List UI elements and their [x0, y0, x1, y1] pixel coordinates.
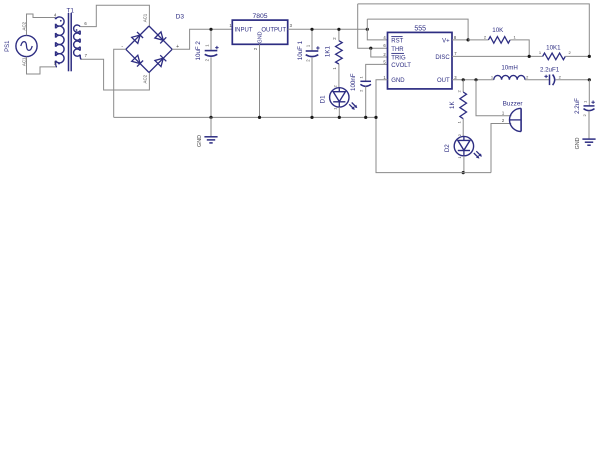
- pin label 5 (555 CVOLT): [383, 59, 386, 64]
- text OUTPUT (7805): [261, 28, 286, 34]
- wire 7805 output rail: [288, 28, 368, 30]
- junction dot THR/TRIG: [369, 47, 372, 50]
- label 7805: [252, 13, 267, 20]
- pin label 1 (555 GND): [383, 75, 386, 80]
- pin label 1 (7805 input): [229, 23, 232, 28]
- pin label 1 (T1): [54, 61, 57, 66]
- text OUT: [437, 78, 450, 84]
- junction dot 10uF1 ground: [310, 116, 313, 119]
- svg-text:D3: D3: [176, 13, 185, 20]
- resistor R 1K1: [336, 41, 343, 64]
- pin label 3 (555 OUT): [454, 75, 457, 80]
- label Buzzer: [503, 100, 524, 107]
- wire 1K1 to D1: [338, 64, 340, 88]
- wire OUT to buzzer pin1: [476, 80, 512, 116]
- wire 10uF1 bottom lead: [311, 58, 313, 118]
- junction dot 1K1 top: [337, 28, 340, 31]
- pin label 2 (10mH): [526, 74, 529, 79]
- label 10uF1: [297, 40, 304, 60]
- svg-text:10mH: 10mH: [501, 64, 518, 71]
- label PS1: [5, 40, 11, 52]
- wire D1 to ground rail: [338, 107, 340, 117]
- wire 10uF1 top lead: [311, 29, 313, 51]
- label D3: [176, 13, 185, 20]
- ground symbol left: [204, 117, 217, 142]
- text CVOLT: [391, 63, 411, 69]
- pin label 1 (2.2uF): [582, 100, 587, 103]
- wire T1 pin 7 to bridge AC2: [81, 59, 149, 90]
- wire 555 GND down and bottom loop: [376, 80, 491, 173]
- LED D2: [454, 136, 482, 158]
- label GND left: [197, 135, 203, 147]
- pin label 1 (10K): [513, 34, 516, 39]
- pin label 1 (D1): [332, 107, 337, 110]
- transformer polarity dots: [58, 20, 77, 65]
- wire 2.2uF1 to right rail: [556, 79, 590, 81]
- svg-text:CVOLT: CVOLT: [391, 63, 411, 69]
- pin label AC1 (bridge top): [143, 13, 148, 22]
- junction dot 10uF2 ground: [209, 116, 212, 119]
- plus sign 10uF2: [215, 46, 218, 49]
- wire 10mH to 2.2uF1: [525, 79, 550, 81]
- capacitor C 100nF: [360, 81, 371, 86]
- wire 1K to D2: [462, 119, 464, 137]
- wire CVOLT to 100nF: [366, 64, 388, 81]
- wire 7805 gnd to rail: [259, 44, 261, 117]
- wire D2 to bottom loop: [463, 156, 465, 173]
- svg-text:100nF: 100nF: [350, 73, 357, 91]
- pin label 6 (T1): [84, 21, 87, 26]
- capacitor C 2.2uF: [584, 106, 595, 111]
- svg-text:GND: GND: [197, 135, 203, 147]
- junction dot 10uF1 top: [310, 28, 313, 31]
- svg-text:2.2uF: 2.2uF: [574, 98, 581, 114]
- svg-text:AC1: AC1: [143, 13, 148, 22]
- svg-text:INPUT: INPUT: [235, 28, 253, 34]
- wire THR drop: [358, 4, 388, 48]
- transformer T1 primary winding: [55, 17, 64, 67]
- svg-text:THR: THR: [391, 47, 404, 53]
- pin label AC2 (PS1 top): [21, 21, 26, 30]
- pin label 2 (2.2uF): [582, 114, 587, 117]
- svg-text:1K1: 1K1: [324, 46, 331, 58]
- wire 10K to DISC node: [510, 40, 529, 57]
- label T1: [66, 8, 74, 15]
- wire PS1 top to T1 pin 4: [27, 14, 56, 35]
- label 1K: [449, 101, 456, 109]
- pin label 2 (1K1): [332, 37, 337, 40]
- svg-text:OUT: OUT: [437, 78, 450, 84]
- junction dot V+: [467, 38, 470, 41]
- svg-text:10uF 2: 10uF 2: [195, 41, 202, 61]
- label 2.2uF1: [540, 66, 560, 73]
- label 10mH: [501, 64, 518, 71]
- wire 2.2uF to ground: [588, 111, 590, 139]
- transformer T1 secondary winding: [74, 25, 82, 59]
- pin label AC2 (bridge bottom): [143, 74, 148, 83]
- transformer T1 core: [69, 13, 72, 71]
- junction dot D2 bottom: [462, 171, 465, 174]
- text TRIG with overbar: [391, 53, 406, 61]
- bridge rectifier D3 diode top-right: [149, 26, 172, 49]
- pin label 1 (1K): [456, 120, 461, 123]
- inductor L 10mH: [494, 75, 525, 79]
- svg-text:D1: D1: [320, 95, 327, 103]
- pin label 2 (10K1): [568, 50, 571, 55]
- junction dot DISC node: [528, 55, 531, 58]
- plus sign 2.2uF: [591, 101, 594, 104]
- label 10K1: [546, 44, 561, 51]
- svg-text:Buzzer: Buzzer: [503, 100, 524, 107]
- label 1K1: [324, 46, 331, 58]
- svg-text:1K: 1K: [449, 101, 456, 109]
- pin label + (bridge right): [176, 44, 179, 50]
- svg-text:GND: GND: [575, 137, 581, 149]
- plus sign 10uF1: [316, 46, 319, 49]
- svg-text:AC2: AC2: [21, 21, 26, 30]
- svg-text:AC2: AC2: [143, 74, 148, 83]
- pin label 1 (10uF1): [305, 44, 310, 47]
- wire PS1 bottom to T1 pin 1: [27, 57, 58, 74]
- pin label 7 (T1): [85, 53, 88, 58]
- svg-text:V+: V+: [442, 38, 450, 44]
- text GND (555): [391, 78, 405, 84]
- text DISC: [435, 55, 450, 61]
- pin label 2 (D1): [332, 85, 337, 88]
- svg-text:GND: GND: [391, 78, 405, 84]
- junction dot rail to 555: [366, 28, 369, 31]
- bridge rectifier D3 diode bottom-left: [126, 49, 149, 72]
- wire top rail (timing node): [358, 4, 590, 57]
- junction dot 10uF2 top: [209, 28, 212, 31]
- wire 10uF2 top lead: [210, 29, 212, 50]
- pin label 1 (1K1): [332, 67, 337, 70]
- label D1: [320, 95, 327, 103]
- svg-text:10K: 10K: [492, 27, 504, 34]
- pin label 2 (555 TRIG): [383, 52, 386, 57]
- label D2: [444, 144, 451, 152]
- pin label 2 (10uF2): [205, 58, 210, 61]
- junction dot 7805 gnd: [258, 116, 261, 119]
- pin label - (bridge left): [121, 44, 123, 50]
- pin label 2 (10K): [484, 34, 487, 39]
- wire rail up-down link (RST/V+ feed): [367, 19, 387, 40]
- junction dot OUT buzzer: [474, 78, 477, 81]
- svg-text:555: 555: [414, 25, 426, 32]
- pin label 2 (D2): [457, 133, 462, 136]
- svg-text:GND: GND: [258, 31, 264, 43]
- pin label 1 (D2): [457, 156, 462, 159]
- capacitor C 10uF2: [205, 51, 218, 57]
- wire 1K1 top lead: [338, 29, 340, 40]
- wire rail2 to V+: [367, 19, 468, 40]
- pin label 2 (2.2uF1): [559, 75, 562, 80]
- label 2.2uF: [574, 98, 581, 114]
- svg-text:7805: 7805: [252, 13, 267, 20]
- pin label 4 (T1): [54, 12, 57, 17]
- resistor R 10K: [488, 37, 510, 44]
- pin label 3 (7805 output): [290, 23, 293, 28]
- pin label 1 (buzzer): [502, 111, 505, 116]
- wire 1K top lead: [462, 80, 464, 92]
- text GND (7805): [258, 31, 264, 43]
- pin label 6 (555 THR): [383, 43, 386, 48]
- wire bridge - to ground rail: [114, 49, 126, 117]
- pin label AC1 (PS1 bottom): [21, 57, 26, 66]
- LED D1: [330, 88, 358, 110]
- pin label 4 (555 RST): [383, 35, 386, 40]
- label 100nF: [350, 73, 357, 91]
- svg-text:10uF 1: 10uF 1: [297, 40, 304, 60]
- bridge rectifier D3 diode top-left: [126, 26, 149, 49]
- wire 100nF bottom lead: [365, 86, 367, 117]
- buzzer LS1: [509, 108, 521, 131]
- wire OUT pin: [452, 79, 494, 81]
- resistor R 1K: [460, 92, 467, 119]
- wire V+ junction to 10K: [468, 39, 488, 41]
- ground symbol right: [582, 139, 595, 145]
- junction dot ground rail to 555 gnd drop: [374, 116, 377, 119]
- pin label 1 (10uF2): [204, 44, 209, 47]
- pin label 2 (1K): [456, 90, 461, 93]
- pin label 1 (10mH): [491, 74, 494, 79]
- voltage regulator U 7805 box: [232, 20, 287, 44]
- text INPUT (7805): [235, 28, 253, 34]
- wire bridge + to 7805 input: [172, 29, 232, 49]
- capacitor C 10uF1: [306, 51, 319, 57]
- wire TRIG jog: [371, 48, 388, 57]
- pin label 2 (buzzer): [502, 118, 505, 123]
- svg-text:PS1: PS1: [5, 40, 11, 52]
- svg-text:TRIG: TRIG: [391, 55, 406, 61]
- svg-text:RST: RST: [391, 39, 403, 45]
- wire 10uF2 bottom lead: [210, 57, 212, 117]
- svg-text:DISC: DISC: [435, 55, 450, 61]
- junction dot OUT 1K: [462, 78, 465, 81]
- svg-text:OUTPUT: OUTPUT: [261, 28, 286, 34]
- label 10uF2: [195, 41, 202, 61]
- pin label 2 (7805 gnd): [253, 47, 258, 50]
- wire 10K1 to right rail: [565, 55, 589, 57]
- wire T1 pin 6 to bridge AC1: [81, 5, 150, 26]
- pin label 8 (555 V+): [454, 35, 457, 40]
- text THR: [391, 47, 404, 53]
- junction dot D1 ground: [338, 116, 341, 119]
- power source PS1 circle with sine: [16, 35, 37, 56]
- bridge rectifier D3 diode bottom-right: [149, 49, 172, 72]
- junction dot 10K1 right rail: [588, 55, 591, 58]
- resistor R 10K1: [543, 53, 566, 60]
- svg-text:2.2uF1: 2.2uF1: [540, 66, 560, 73]
- label 10K: [492, 27, 504, 34]
- pin label 2 (100nF): [359, 89, 364, 92]
- timer IC U1 555 box: [388, 32, 453, 89]
- wire ground rail: [114, 116, 376, 118]
- wire buzzer pin2 to bottom: [491, 124, 511, 173]
- plus sign 2.2uF1: [544, 75, 547, 78]
- label 555: [414, 25, 426, 32]
- text V+: [442, 38, 450, 44]
- capacitor C 2.2uF1: [550, 75, 555, 86]
- svg-text:AC1: AC1: [21, 57, 26, 66]
- pin label 1 (10K1): [539, 50, 542, 55]
- text RST with overbar: [391, 37, 403, 45]
- svg-text:T1: T1: [66, 8, 74, 15]
- pin label 2 (10uF1): [305, 59, 310, 62]
- wire V+ pin to junction: [452, 39, 468, 41]
- svg-text:10K1: 10K1: [546, 44, 561, 51]
- wire right rail to 2.2uF: [588, 80, 590, 106]
- wire DISC pin to node: [452, 55, 543, 57]
- label GND right: [575, 137, 581, 149]
- junction dot 100nF ground: [364, 116, 367, 119]
- junction dot 2.2uF1 right rail: [588, 78, 591, 81]
- pin label 1 (100nF): [359, 76, 364, 79]
- svg-text:D2: D2: [444, 144, 451, 152]
- pin label 7 (555 DISC): [454, 51, 457, 56]
